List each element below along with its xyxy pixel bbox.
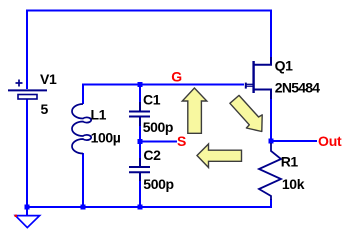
svg-text:R1: R1	[281, 153, 299, 169]
svg-text:Out: Out	[318, 133, 342, 149]
svg-text:G: G	[171, 69, 182, 85]
svg-text:S: S	[177, 133, 186, 149]
svg-text:Q1: Q1	[275, 57, 294, 73]
svg-text:500p: 500p	[143, 119, 173, 135]
svg-text:L1: L1	[91, 107, 107, 123]
svg-text:C2: C2	[143, 147, 161, 163]
svg-text:100µ: 100µ	[91, 129, 121, 145]
svg-text:5: 5	[41, 101, 49, 117]
svg-text:C1: C1	[143, 91, 161, 107]
svg-text:2N5484: 2N5484	[275, 80, 321, 96]
svg-text:10k: 10k	[282, 176, 305, 192]
svg-text:500p: 500p	[143, 176, 173, 192]
svg-text:V1: V1	[40, 71, 57, 87]
